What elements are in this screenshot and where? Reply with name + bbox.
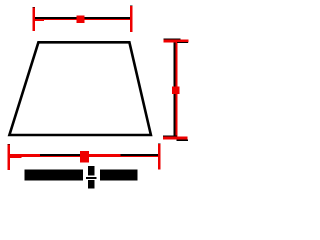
top slider: right tick	[130, 6, 132, 32]
lampshade trapezoid outline	[9, 42, 151, 135]
top slider: left tick black cap	[33, 7, 35, 8]
bottom slider: black track segment right of handle	[121, 154, 159, 156]
right slider: black track line	[174, 42, 176, 137]
top slider: red underline track	[33, 19, 131, 21]
finial icon top block	[88, 166, 94, 176]
right slider: top tick black fringe lower-right	[177, 42, 188, 43]
top slider: black track line	[35, 17, 131, 19]
right slider: bottom tick black cap upper-left	[163, 136, 177, 137]
right slider: bottom tick	[163, 136, 187, 139]
bottom slider: right tick black cap	[158, 144, 161, 145]
right slider: top tick black cap upper-left	[164, 39, 181, 40]
top slider: right tick black cap	[130, 5, 132, 6]
right slider: red track line	[176, 42, 178, 137]
right slider: bottom tick black fringe lower-right	[177, 140, 188, 142]
right slider: red square handle	[172, 86, 180, 94]
bottom slider: right tick	[158, 144, 161, 170]
bottom slider: red square handle	[80, 151, 89, 162]
base bar right	[100, 170, 138, 181]
finial icon bottom block	[88, 180, 94, 188]
top slider: red square handle	[77, 15, 85, 23]
right slider: top tick	[164, 40, 189, 43]
bottom slider: black track segment left of handle	[40, 154, 80, 156]
bottom slider: left tick	[8, 145, 11, 171]
bottom slider: left tick black cap	[8, 144, 11, 145]
bottom slider: red track	[8, 154, 159, 157]
bottom slider: thick red segment near left tick	[8, 154, 22, 158]
finial icon middle bar	[86, 177, 96, 179]
top slider: thick red segment near left tick	[33, 19, 44, 22]
base bar left	[25, 170, 83, 181]
top slider: left tick	[33, 8, 35, 32]
